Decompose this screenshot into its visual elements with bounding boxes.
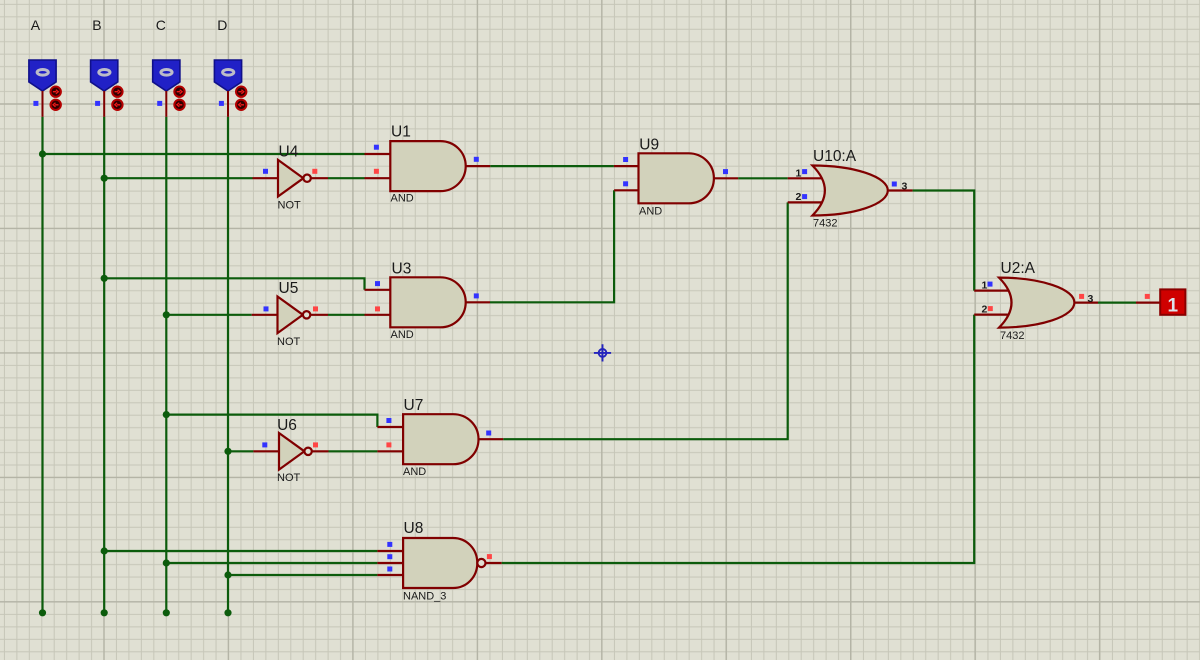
state square U9 input B (0) bbox=[623, 181, 628, 186]
svg-text:3: 3 bbox=[902, 180, 908, 192]
svg-text:1: 1 bbox=[1168, 296, 1179, 317]
node junction B tap U4 bbox=[101, 175, 108, 182]
pin stub U5 output bbox=[310, 314, 328, 316]
wire net D to U6 input bbox=[228, 450, 253, 452]
state square U3 input B (1) bbox=[375, 306, 380, 311]
pin stub U1 output bbox=[465, 165, 491, 167]
state square U7 output (0) bbox=[486, 431, 491, 436]
pin stub U3 input A bbox=[365, 289, 392, 291]
state square U10 pin 2 (0) bbox=[802, 194, 807, 199]
node junction B tap row4 bbox=[101, 547, 108, 554]
wire U6 output to U7 pin B bbox=[329, 450, 378, 452]
pin stub U1 input A bbox=[365, 153, 392, 155]
state square U4 input (0) bbox=[263, 169, 268, 174]
wire net A to U1 pin A bbox=[43, 153, 365, 155]
nand gate U8 (3-input) bbox=[403, 538, 485, 588]
state square U2 pin 3 (1) bbox=[1079, 294, 1084, 299]
and gate U1 bbox=[390, 141, 465, 191]
svg-text:U3: U3 bbox=[392, 260, 412, 277]
pin stub U9 input A bbox=[614, 165, 639, 167]
state square U7 input A (0) bbox=[386, 418, 391, 423]
not gate U6 bbox=[279, 433, 312, 470]
state square U5 output (1) bbox=[313, 306, 318, 311]
state square U4 output (1) bbox=[312, 169, 317, 174]
logic input pin D (LOGICSTATE, value 0) bbox=[214, 60, 241, 117]
wire net D row4 to U8 pin 3 bbox=[228, 574, 377, 576]
not gate U5 bbox=[278, 297, 311, 334]
node junction C tap row3 bbox=[163, 411, 170, 418]
wire bus B vertical bbox=[103, 117, 105, 613]
state square U8 input 2 (0) bbox=[387, 554, 392, 559]
node end of bus A bbox=[39, 609, 46, 616]
logic input pin C (LOGICSTATE, value 0) bbox=[153, 60, 180, 117]
wire net C row4 to U8 pin 2 bbox=[166, 562, 377, 564]
and gate U3 bbox=[390, 277, 465, 327]
wire U8 output to U2 pin 2 bbox=[502, 315, 975, 563]
node junction D tap U6 bbox=[224, 448, 231, 455]
svg-text:U1: U1 bbox=[391, 124, 411, 141]
svg-text:B: B bbox=[92, 17, 101, 33]
svg-text:2: 2 bbox=[982, 304, 988, 316]
and gate U9 bbox=[639, 153, 714, 203]
wire U5 output to U3 pin B bbox=[328, 314, 365, 316]
state square U3 output (0) bbox=[474, 293, 479, 298]
svg-text:NOT: NOT bbox=[277, 472, 301, 484]
toggle buttons of B bbox=[112, 87, 122, 111]
pin stub U8 input 3 bbox=[377, 574, 403, 576]
pin stub U9 input B bbox=[614, 189, 639, 191]
pin state square of A bbox=[33, 101, 38, 106]
pin stub U4 output bbox=[311, 177, 328, 179]
svg-text:U7: U7 bbox=[404, 397, 424, 414]
wire U7 output to U10 pin 2 bbox=[503, 202, 787, 439]
svg-text:7432: 7432 bbox=[813, 218, 837, 230]
state square U8 input 1 (0) bbox=[387, 542, 392, 547]
svg-text:U4: U4 bbox=[279, 144, 299, 161]
toggle buttons of D bbox=[236, 87, 246, 111]
pin state square of D bbox=[219, 101, 224, 106]
state square U1 output (0) bbox=[474, 157, 479, 162]
node junction D tap row4 bbox=[224, 571, 231, 578]
node junction B tap row2 bbox=[101, 275, 108, 282]
and gate U7 bbox=[403, 414, 478, 464]
pin stub U7 output bbox=[477, 438, 503, 440]
svg-text:U8: U8 bbox=[404, 520, 424, 537]
wire U10 output to U2 pin 1 bbox=[913, 191, 975, 291]
toggle buttons of C bbox=[174, 87, 184, 111]
state square U1 input A (0) bbox=[374, 145, 379, 150]
state square U3 input A (0) bbox=[375, 281, 380, 286]
wire net B to U4 input bbox=[104, 177, 252, 179]
svg-text:AND: AND bbox=[403, 466, 426, 478]
wire net B row4 to U8 pin 1 bbox=[104, 550, 377, 552]
state square U7 input B (1) bbox=[386, 442, 391, 447]
svg-text:1: 1 bbox=[796, 168, 802, 180]
svg-text:NAND_3: NAND_3 bbox=[403, 591, 446, 603]
pin stub U10 input 1 bbox=[788, 177, 824, 179]
logic input pin A (LOGICSTATE, value 0) bbox=[29, 60, 56, 117]
svg-text:U5: U5 bbox=[279, 280, 299, 297]
state square U2 pin 1 (0) bbox=[988, 282, 993, 287]
state square U5 input (0) bbox=[264, 306, 269, 311]
pin stub U3 input B bbox=[365, 314, 392, 316]
wire U3 output to U9 pin B bbox=[490, 190, 614, 302]
pin stub U2 input 2 bbox=[974, 314, 1011, 316]
pin stub U8 input 1 bbox=[377, 550, 403, 552]
svg-text:U6: U6 bbox=[277, 417, 297, 434]
svg-text:AND: AND bbox=[391, 193, 414, 205]
sheet origin marker bbox=[594, 344, 611, 361]
toggle buttons of A bbox=[51, 87, 61, 111]
pin stub U8 output bbox=[486, 562, 502, 564]
node junction A tap row1 bbox=[39, 150, 46, 157]
output logic probe showing 1 bbox=[1160, 289, 1185, 316]
pin stub U6 output bbox=[312, 450, 329, 452]
svg-text:NOT: NOT bbox=[278, 199, 302, 211]
node end of bus C bbox=[163, 609, 170, 616]
logic input pin B (LOGICSTATE, value 0) bbox=[91, 60, 118, 117]
wire bus A vertical bbox=[41, 117, 43, 613]
or gate U10:A (7432) bbox=[812, 166, 887, 216]
wire net C row3 to U7 pin A bbox=[166, 415, 377, 427]
state square U6 input (0) bbox=[262, 442, 267, 447]
wire U9 output to U10 pin 1 bbox=[738, 177, 788, 179]
wire U1 output to U9 pin A bbox=[490, 165, 614, 167]
state square U10 pin 1 (0) bbox=[802, 169, 807, 174]
state square U8 input 3 (0) bbox=[387, 567, 392, 572]
pin stub U6 input bbox=[253, 450, 279, 452]
pin stub U9 output bbox=[713, 177, 739, 179]
wire net C to U5 input bbox=[166, 314, 251, 316]
svg-text:A: A bbox=[31, 17, 41, 33]
svg-text:1: 1 bbox=[982, 280, 988, 292]
state square U9 output (0) bbox=[723, 169, 728, 174]
wire U2 output to logic probe bbox=[1098, 302, 1136, 304]
pin stub U8 input 2 bbox=[377, 562, 403, 564]
pin stub U3 output bbox=[465, 301, 491, 303]
pin stub U2 input 1 bbox=[974, 290, 1011, 292]
pin state square of C bbox=[157, 101, 162, 106]
wire bus C vertical bbox=[165, 117, 167, 613]
pin stub of output logic probe bbox=[1136, 302, 1160, 304]
pin stub U10 output pin 3 bbox=[887, 189, 913, 191]
svg-text:U9: U9 bbox=[639, 136, 659, 153]
state square U9 input A (0) bbox=[623, 157, 628, 162]
wire bus D vertical bbox=[227, 117, 229, 613]
node end of bus B bbox=[101, 609, 108, 616]
svg-text:U2:A: U2:A bbox=[1001, 260, 1036, 277]
svg-text:C: C bbox=[156, 17, 166, 33]
wire net B row2 to U3 pin A bbox=[104, 278, 364, 290]
wire U4 output to U1 pin B bbox=[328, 177, 365, 179]
svg-text:3: 3 bbox=[1088, 293, 1094, 305]
pin stub U2 output pin 3 bbox=[1073, 302, 1099, 304]
pin stub U5 input bbox=[252, 314, 278, 316]
pin stub U7 input B bbox=[377, 450, 403, 452]
svg-text:U10:A: U10:A bbox=[813, 148, 857, 165]
pin stub U4 input bbox=[253, 177, 279, 179]
not gate U4 bbox=[278, 160, 311, 197]
pin stub U1 input B bbox=[365, 177, 392, 179]
svg-text:AND: AND bbox=[391, 329, 414, 341]
pin stub U10 input 2 bbox=[788, 201, 824, 203]
svg-text:D: D bbox=[217, 17, 227, 33]
svg-text:7432: 7432 bbox=[1000, 330, 1024, 342]
svg-text:NOT: NOT bbox=[277, 336, 301, 348]
state square U1 input B (1) bbox=[374, 169, 379, 174]
or gate U2:A (7432) bbox=[999, 278, 1074, 328]
node junction C tap row4 bbox=[163, 559, 170, 566]
state square output probe (1) bbox=[1145, 294, 1150, 299]
node end of bus D bbox=[224, 609, 231, 616]
state square U8 output (1) bbox=[487, 554, 492, 559]
node junction C tap U5 bbox=[163, 311, 170, 318]
state square U6 output (1) bbox=[313, 442, 318, 447]
svg-text:AND: AND bbox=[639, 205, 662, 217]
state square U10 pin 3 (0) bbox=[892, 182, 897, 187]
state square U2 pin 2 (1) bbox=[988, 306, 993, 311]
pin stub U7 input A bbox=[377, 426, 403, 428]
svg-text:2: 2 bbox=[796, 191, 802, 203]
pin state square of B bbox=[95, 101, 100, 106]
